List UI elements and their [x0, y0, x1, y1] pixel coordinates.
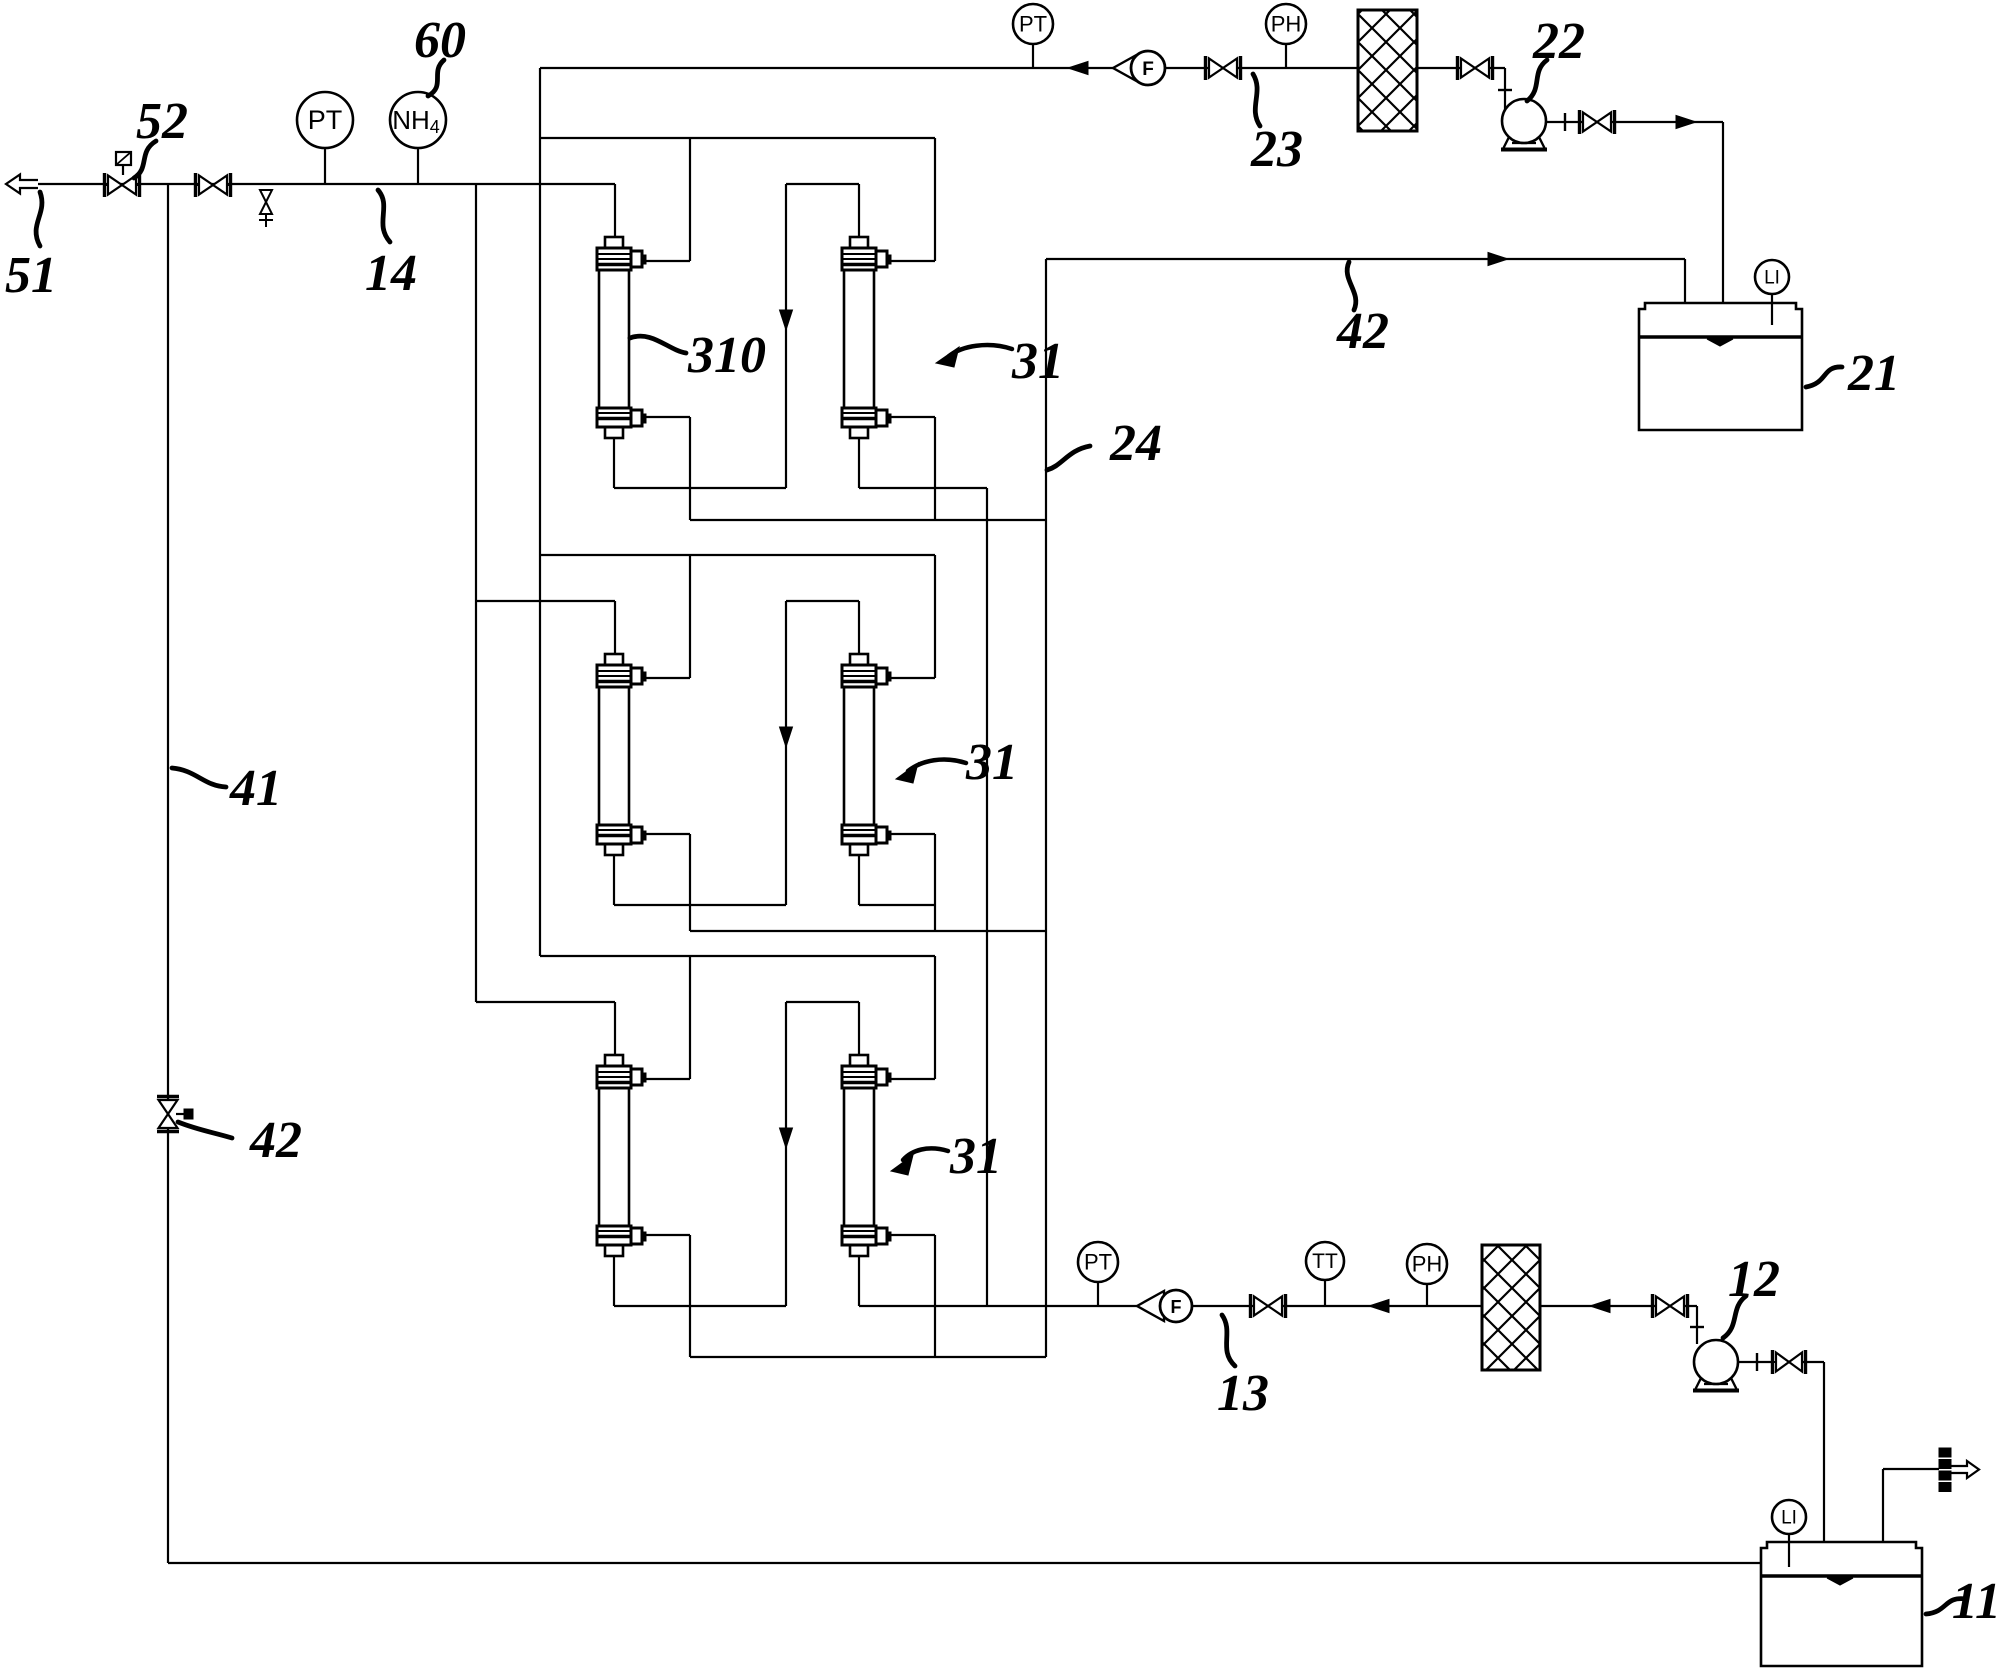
tick on pump 12 suction	[1690, 1326, 1704, 1328]
svg-text:TT: TT	[1312, 1250, 1338, 1273]
label 23 leader	[1253, 74, 1260, 126]
wire LI stem (tank 11)	[1788, 1534, 1790, 1567]
wire pair-2 right bottom port line	[889, 833, 935, 835]
wire pair-2 right top drop x=935	[934, 555, 936, 678]
outlet arrow 51 (hollow, points left)	[6, 175, 38, 194]
flow meter F circle (bottom line)	[1160, 1290, 1192, 1322]
wire pair-1 right bottom cap stem	[858, 438, 860, 488]
instrument LI (tank 21)	[1755, 260, 1789, 294]
label 14 leader	[378, 190, 390, 242]
wire pair-3 feed horizontal (y=1002)	[476, 1001, 615, 1003]
label 11 leader	[1926, 1599, 1966, 1614]
wire top dialysate line (y=68)	[540, 67, 1505, 69]
wire pair-2 right top port line	[889, 677, 935, 679]
label 41 leader	[172, 768, 226, 787]
valve (before pump 12)	[1651, 1294, 1654, 1318]
label 51 leader	[36, 192, 42, 246]
label 52 leader	[134, 141, 156, 178]
wire pair-3 feed drop	[614, 1002, 616, 1055]
flow arrow on pair-2 center riser (points down)	[780, 727, 793, 747]
valve (pump 12 discharge)	[1771, 1350, 1774, 1374]
wire pair-3 right top port line	[889, 1078, 935, 1080]
valve (bottom line)	[1249, 1294, 1252, 1318]
membrane module (pair 3 right)	[850, 1055, 868, 1066]
wire pair-2 right bottom cap stem	[858, 855, 860, 905]
membrane module (pair 3 left)	[605, 1055, 623, 1066]
label 31 arrow (pair 1)	[949, 345, 1012, 356]
wire line 41 left vertical (x=168)	[167, 184, 169, 1563]
wire pair-1 right bottom port line	[889, 416, 935, 418]
wire PT stem (bottom)	[1097, 1282, 1099, 1306]
wire line 41 bottom horizontal to tank 11	[168, 1562, 1761, 1564]
wire pump 12 discharge to corner	[1802, 1361, 1824, 1363]
wire pair-3 center riser x=786	[785, 1002, 787, 1306]
svg-text:14: 14	[365, 245, 417, 302]
svg-text:60: 60	[414, 12, 466, 69]
membrane module (pair 2 left)	[605, 654, 623, 665]
wire header vertical x=540	[539, 68, 541, 956]
svg-text:24: 24	[1109, 415, 1162, 472]
wire drop into tank 21	[1722, 122, 1724, 303]
wire pair-1 left top port line	[644, 260, 690, 262]
wire pair-3 left bottom port drop x=690	[689, 1235, 691, 1357]
wire pair-3 left top port drop x=690	[689, 956, 691, 1079]
wire main permeate pipe 14 (y=184)	[38, 183, 615, 185]
svg-text:F: F	[1142, 59, 1154, 80]
wire line 42 top horizontal (y=259)	[1046, 258, 1685, 260]
wire pair-3 right bottom port drop x=935	[934, 1235, 936, 1357]
svg-text:23: 23	[1250, 121, 1303, 178]
flow meter F circle (top line)	[1131, 51, 1165, 85]
valve (pump 22 discharge)	[1578, 110, 1581, 134]
instrument PH (top line)	[1266, 4, 1306, 44]
instrument NH4 sensor 60	[390, 92, 446, 148]
wire pair-1 right top drop x=935	[934, 138, 936, 261]
pump 22	[1502, 99, 1546, 143]
valve (top line, after F)	[1204, 56, 1207, 80]
svg-text:F: F	[1171, 1297, 1182, 1317]
wire pair-3 right bottom port line	[889, 1234, 935, 1236]
svg-text:PH: PH	[1271, 11, 1302, 36]
wire pair-1 right bottom port drop x=935	[934, 417, 936, 520]
wire pair-1 right top port line	[889, 260, 935, 262]
tank 11	[1761, 1542, 1922, 1576]
wire pair-2 top distribution line B2 (y=555)	[540, 554, 935, 556]
svg-text:42: 42	[1336, 303, 1389, 360]
label 24 leader	[1047, 446, 1090, 470]
tick on pump 12 discharge	[1756, 1353, 1758, 1371]
tick on pump 22 suction	[1498, 89, 1512, 91]
svg-text:52: 52	[136, 93, 188, 150]
wire collection vertical x=987	[986, 488, 988, 1306]
wire pair-1 left bottom port line	[644, 416, 690, 418]
filter/heat-exchanger (top)	[1358, 10, 1417, 131]
wire pair-3 center bottom horizontal	[614, 1305, 786, 1307]
svg-text:PT: PT	[308, 105, 343, 135]
svg-text:PH: PH	[1412, 1251, 1443, 1276]
label 31 arrow (pair 3)	[903, 1148, 948, 1160]
flow arrow on line 13 after filter (points left)	[1590, 1300, 1610, 1313]
membrane module (pair 2 right)	[850, 654, 868, 665]
instrument PT (top line)	[1013, 4, 1053, 44]
svg-text:42: 42	[249, 1112, 302, 1169]
wire pump 12 suction drop	[1696, 1306, 1698, 1344]
label 12 leader	[1723, 1296, 1746, 1338]
tick on pump 22 discharge	[1564, 113, 1566, 131]
wire pair-3 top distribution line B3 (y=956)	[540, 955, 935, 957]
flow arrow on line 13 (points left)	[1369, 1300, 1389, 1313]
wire TT stem	[1324, 1280, 1326, 1306]
flow meter F cone (top line)	[1113, 53, 1140, 83]
wire PH stem	[1285, 44, 1287, 68]
wire pair-3 right bottom cap stem	[858, 1256, 860, 1306]
valve (before pump 22)	[1456, 56, 1459, 80]
wire pair-3 left bottom port line	[644, 1234, 690, 1236]
membrane module (pair 1 right)	[850, 237, 868, 248]
svg-text:51: 51	[5, 247, 57, 304]
wire pump 22 suction drop	[1504, 68, 1506, 112]
wire pair-2 center riser x=786	[785, 601, 787, 905]
wire pair-2 right module top stem	[858, 601, 860, 654]
wire pair-3 concentrate collection line to line 24	[690, 1356, 1046, 1358]
wire pair-2 feed horizontal (y=601)	[476, 600, 615, 602]
wire pair-1 left bottom port drop x=690	[689, 417, 691, 520]
wire pair-1 right module top stem	[858, 184, 860, 237]
svg-text:13: 13	[1217, 1365, 1269, 1422]
vent outlet arrow (hollow, points right)	[1951, 1461, 1979, 1478]
tank 21	[1639, 303, 1802, 337]
flow arrow on line 42 (points right)	[1488, 253, 1508, 266]
wire pair-3 right module top stem	[858, 1002, 860, 1055]
valve 42 (on line 41)	[157, 1095, 179, 1098]
svg-text:PT: PT	[1019, 11, 1047, 36]
valve 52 (control valve with actuator)	[103, 173, 106, 197]
wire tank 11 vent horizontal	[1883, 1468, 1939, 1470]
wire pair-2 left top port drop x=690	[689, 555, 691, 678]
wire pair-3 left top port line	[644, 1078, 690, 1080]
svg-text:11: 11	[1952, 1573, 2001, 1630]
wire pair-1 concentrate collection line to line 24	[690, 519, 1046, 521]
wire pair-2 left bottom cap stem	[613, 855, 615, 905]
wire pair-3 left bottom cap stem	[613, 1256, 615, 1306]
wire pump 22 discharge	[1546, 121, 1584, 123]
wire pair-2 right bottom port drop x=935	[934, 834, 936, 931]
wire pump 12 drop into tank 11	[1823, 1362, 1825, 1542]
wire PT stem	[1032, 44, 1034, 68]
wire tank 11 vent riser	[1882, 1469, 1884, 1542]
valve (on pipe 14)	[194, 173, 197, 197]
instrument PT (pipe 14)	[297, 92, 353, 148]
wire pair-2 left top port line	[644, 677, 690, 679]
svg-text:12: 12	[1728, 1251, 1780, 1308]
svg-text:310: 310	[687, 327, 766, 384]
flow meter F cone (bottom line)	[1137, 1291, 1164, 1321]
wire bottom feed line 13 (y=1306)	[859, 1305, 1697, 1307]
wire pair-1 feed drop into module 310	[614, 184, 616, 237]
label 22 leader	[1527, 60, 1547, 101]
wire pair-1 center top horizontal	[786, 183, 859, 185]
wire pair-1 center bottom horizontal	[614, 487, 786, 489]
wire pair-2 center bottom horizontal	[614, 904, 786, 906]
svg-text:LI: LI	[1781, 1507, 1797, 1528]
svg-text:31: 31	[1011, 333, 1064, 390]
flow arrow on top line (points left)	[1068, 62, 1088, 75]
label 42 leader (valve)	[178, 1122, 232, 1138]
flow arrow to tank 21 (points right)	[1676, 116, 1696, 129]
flow arrow on pair-1 center riser (points down)	[780, 310, 793, 330]
label 13 leader	[1222, 1315, 1235, 1366]
vent break symbol (stacked squares)	[1939, 1448, 1951, 1457]
wire pair-1 top distribution line B1 (y=138)	[540, 137, 935, 139]
wire PT stem (pipe 14)	[324, 148, 326, 184]
wire pair-2 right cap line to x=935	[859, 904, 935, 906]
instrument PT (bottom line)	[1078, 1242, 1118, 1282]
wire pair-1 center riser x=786	[785, 184, 787, 488]
wire pair-1 right cap line to x=987	[859, 487, 987, 489]
svg-text:31: 31	[949, 1128, 1002, 1185]
flow arrow on pair-3 center riser (points down)	[780, 1128, 793, 1148]
wire pump 12 discharge	[1738, 1361, 1772, 1363]
wire PH stem (bottom)	[1426, 1284, 1428, 1306]
svg-text:21: 21	[1847, 345, 1900, 402]
instrument LI (tank 11)	[1772, 1500, 1806, 1534]
wire pair-1 left bottom cap stem	[613, 438, 615, 488]
wire pair-2 left bottom port drop x=690	[689, 834, 691, 931]
instrument TT (bottom line)	[1306, 1242, 1344, 1280]
membrane module 310 (pair 1 left)	[605, 237, 623, 248]
label 310 leader	[630, 336, 686, 353]
wire pair-2 center top horizontal	[786, 600, 859, 602]
svg-text:PT: PT	[1084, 1249, 1112, 1274]
label 31 arrow (pair 2)	[908, 760, 966, 771]
svg-text:LI: LI	[1764, 267, 1780, 288]
label 60 leader	[428, 60, 444, 96]
svg-text:31: 31	[965, 734, 1018, 791]
wire feed header vertical x=476	[475, 184, 477, 1002]
wire LI stem (tank 21)	[1771, 294, 1773, 325]
wire pair-2 feed drop	[614, 601, 616, 654]
svg-text:41: 41	[229, 760, 282, 817]
wire pair-2 left bottom port line	[644, 833, 690, 835]
wire pump 22 discharge to tank 21	[1611, 121, 1723, 123]
wire pair-2 concentrate collection line to line 24	[690, 930, 1046, 932]
wire line 42 drop into tank 21	[1684, 259, 1686, 303]
svg-text:22: 22	[1532, 13, 1585, 70]
label 42 leader (top)	[1347, 262, 1356, 310]
filter/heat-exchanger (bottom)	[1482, 1245, 1540, 1370]
pump 12	[1694, 1340, 1738, 1384]
wire line 24 vertical (x=1046)	[1045, 259, 1047, 1357]
wire pair-3 center top horizontal	[786, 1001, 859, 1003]
instrument PH (bottom line)	[1407, 1244, 1447, 1284]
wire pair-1 left top port drop x=690	[689, 138, 691, 261]
label 21 leader	[1806, 367, 1842, 387]
wire pair-3 right top drop x=935	[934, 956, 936, 1079]
needle/drain valve below pipe 14	[260, 190, 272, 202]
wire NH4 stem	[417, 148, 419, 184]
